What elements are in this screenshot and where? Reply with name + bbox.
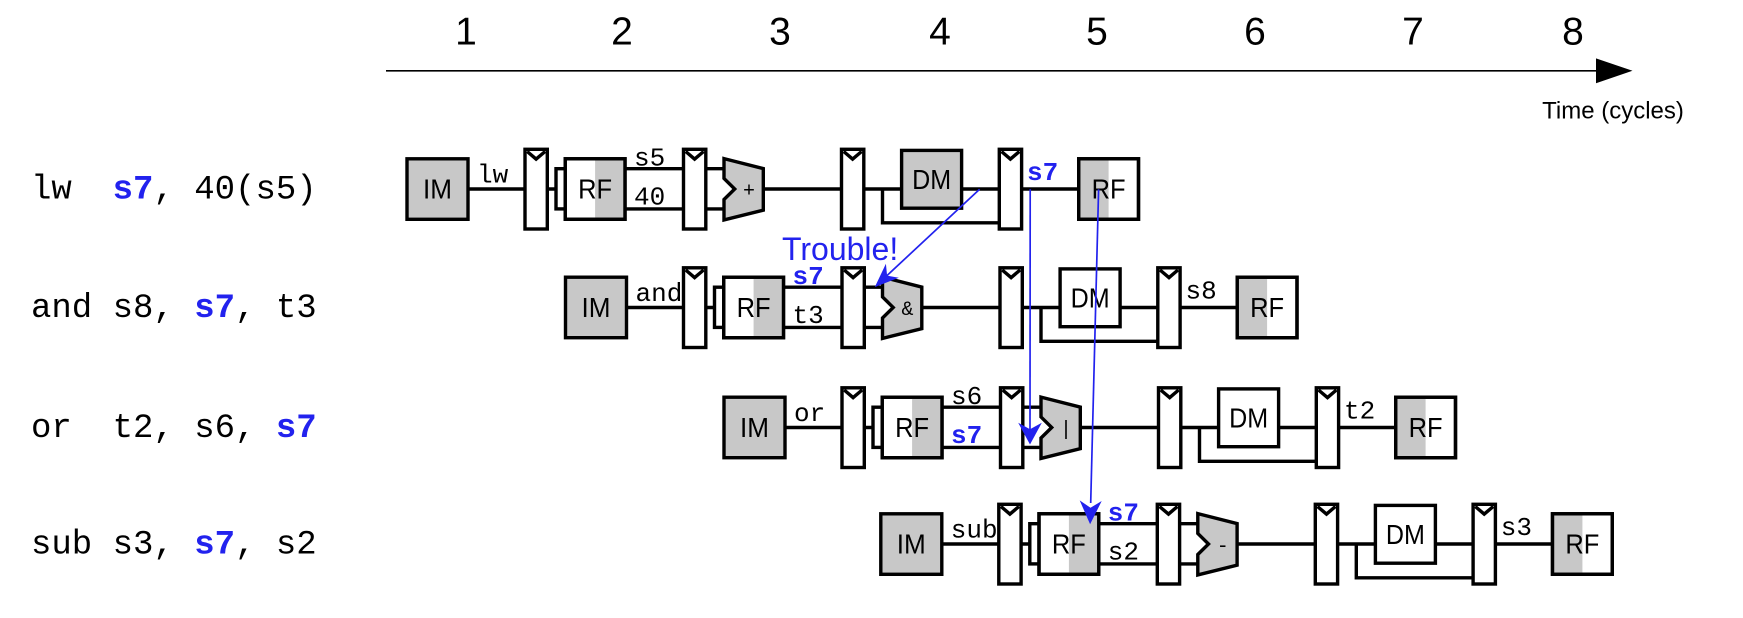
svg-text:RF: RF bbox=[578, 174, 612, 205]
hazard arrow 3: lw writeback to sub RF read bbox=[1080, 189, 1102, 524]
wire register to RF writeback row 1 bbox=[1022, 187, 1081, 190]
RF box (register file write) row 3 bbox=[1396, 397, 1456, 458]
wire register to ALU bottom input row 4 bbox=[1180, 562, 1200, 565]
wire RF bottom output row 1 bbox=[625, 207, 686, 210]
svg-text:2: 2 bbox=[611, 11, 633, 54]
svg-text:-: - bbox=[1217, 536, 1229, 559]
pipeline register EX/MEM row 1 bbox=[842, 149, 864, 229]
wire RF top output row 3 bbox=[942, 406, 1003, 409]
svg-text:sub s3, s7, s2: sub s3, s7, s2 bbox=[31, 527, 317, 565]
RF left port bracket row 1 bbox=[556, 169, 586, 209]
svg-text:DM: DM bbox=[1229, 402, 1268, 433]
ALU (-) row 4 bbox=[1198, 514, 1237, 575]
svg-text:5: 5 bbox=[1086, 11, 1108, 54]
svg-text:RF: RF bbox=[1052, 529, 1086, 560]
wire DM to register row 4 bbox=[1435, 542, 1475, 545]
svg-text:DM: DM bbox=[1386, 519, 1425, 550]
pipeline register MEM/WB row 2 bbox=[1158, 268, 1180, 348]
svg-text:s7: s7 bbox=[1027, 158, 1058, 188]
wire RF top output row 2 bbox=[784, 286, 845, 289]
wire DM to register row 3 bbox=[1279, 426, 1319, 429]
wire ALU output row 1 bbox=[763, 187, 843, 190]
wire register to DM row 4 bbox=[1338, 542, 1378, 545]
pipeline register IF/ID row 3 bbox=[842, 388, 864, 468]
svg-text:IM: IM bbox=[740, 412, 769, 443]
wire register to ALU bottom input row 1 bbox=[706, 207, 726, 210]
wire RF top output row 1 bbox=[625, 167, 686, 170]
svg-text:RF: RF bbox=[1250, 292, 1284, 323]
wire ALU output row 4 bbox=[1237, 542, 1317, 545]
RF left port bracket row 4 bbox=[1030, 524, 1060, 564]
wire register to RF row 4 bbox=[1021, 542, 1040, 545]
timeline axis (time arrow) bbox=[386, 58, 1633, 83]
pipeline register IF/ID row 4 bbox=[999, 504, 1021, 584]
RF box (register file write) row 4 bbox=[1553, 514, 1613, 575]
RF box (register file read) row 2 bbox=[724, 277, 784, 338]
svg-text:t3: t3 bbox=[793, 301, 824, 331]
svg-text:s8: s8 bbox=[1186, 277, 1217, 307]
svg-text:3: 3 bbox=[769, 11, 791, 54]
wire register to RF row 3 bbox=[864, 426, 883, 429]
RF box (register file read) row 4 bbox=[1039, 514, 1099, 575]
IM box (instruction memory) row 3 bbox=[724, 397, 785, 458]
wire register to RF row 1 bbox=[547, 187, 566, 190]
DM box (data memory) row 1 bbox=[902, 150, 962, 208]
wire RF bottom output row 3 bbox=[942, 446, 1003, 449]
wire ALU output row 3 bbox=[1080, 426, 1160, 429]
svg-text:1: 1 bbox=[455, 11, 477, 54]
svg-text:lw s7, 40(s5): lw s7, 40(s5) bbox=[31, 172, 317, 210]
svg-text:s2: s2 bbox=[1108, 537, 1139, 567]
svg-text:Time (cycles): Time (cycles) bbox=[1542, 98, 1684, 125]
DM bypass wire row 3 bbox=[1200, 428, 1319, 462]
DM bypass wire row 2 bbox=[1041, 308, 1160, 342]
wire register to DM row 2 bbox=[1022, 306, 1062, 309]
svg-text:DM: DM bbox=[1071, 282, 1110, 313]
svg-text:RF: RF bbox=[737, 292, 771, 323]
pipeline register EX/MEM row 2 bbox=[1000, 268, 1022, 348]
hazard arrow 1: lw result to and ALU input bbox=[875, 189, 980, 287]
svg-text:s6: s6 bbox=[951, 382, 982, 412]
svg-text:IM: IM bbox=[582, 292, 611, 323]
wire ALU output row 2 bbox=[922, 306, 1002, 309]
DM bypass wire row 4 bbox=[1356, 544, 1475, 578]
pipeline register EX/MEM row 3 bbox=[1159, 388, 1181, 468]
svg-text:s5: s5 bbox=[634, 144, 665, 174]
wire register to ALU bottom input row 2 bbox=[864, 326, 884, 329]
ALU (&) row 2 bbox=[883, 277, 922, 338]
ALU (|) row 3 bbox=[1041, 397, 1080, 458]
svg-text:RF: RF bbox=[1565, 529, 1599, 560]
pipeline register ID/EX row 3 bbox=[1001, 388, 1023, 468]
wire register to ALU top input row 2 bbox=[864, 286, 884, 289]
svg-text:and: and bbox=[636, 279, 683, 309]
svg-text:DM: DM bbox=[912, 164, 951, 195]
svg-text:IM: IM bbox=[423, 174, 452, 205]
pipeline register MEM/WB row 3 bbox=[1316, 388, 1338, 468]
svg-text:or t2, s6, s7: or t2, s6, s7 bbox=[31, 410, 317, 448]
RF left port bracket row 3 bbox=[873, 407, 903, 447]
svg-text:s3: s3 bbox=[1501, 513, 1532, 543]
pipeline register MEM/WB row 1 bbox=[999, 149, 1021, 229]
svg-text:|: | bbox=[1060, 419, 1072, 442]
svg-text:Trouble!: Trouble! bbox=[782, 231, 898, 267]
wire register to ALU bottom input row 3 bbox=[1023, 446, 1043, 449]
svg-text:8: 8 bbox=[1562, 11, 1584, 54]
svg-text:and s8, s7, t3: and s8, s7, t3 bbox=[31, 290, 317, 328]
DM box (data memory) row 2 bbox=[1060, 269, 1120, 327]
svg-text:6: 6 bbox=[1244, 11, 1266, 54]
wire register to RF writeback row 3 bbox=[1339, 426, 1398, 429]
hazard arrow 2: lw result to or ALU input bbox=[1018, 189, 1042, 444]
wire register to ALU top input row 4 bbox=[1180, 522, 1200, 525]
wire IM to IF/ID register row 4 bbox=[942, 542, 1001, 545]
wire DM to register row 1 bbox=[962, 187, 1002, 190]
pipeline register ID/EX row 2 bbox=[842, 268, 864, 348]
svg-text:s7: s7 bbox=[951, 421, 982, 451]
svg-text:or: or bbox=[794, 399, 825, 429]
RF box (register file write) row 2 bbox=[1237, 277, 1297, 338]
RF box (register file write) row 1 bbox=[1079, 159, 1139, 220]
DM bypass wire row 1 bbox=[883, 189, 1002, 223]
pipeline register ID/EX row 1 bbox=[684, 149, 706, 229]
pipeline register EX/MEM row 4 bbox=[1315, 504, 1337, 584]
svg-text:7: 7 bbox=[1402, 11, 1424, 54]
wire register to DM row 3 bbox=[1181, 426, 1221, 429]
svg-text:40: 40 bbox=[634, 182, 665, 212]
wire RF bottom output row 4 bbox=[1099, 562, 1160, 565]
svg-text:t2: t2 bbox=[1344, 397, 1375, 427]
svg-text:s7: s7 bbox=[1108, 499, 1139, 529]
wire RF top output row 4 bbox=[1099, 522, 1160, 525]
wire register to RF writeback row 2 bbox=[1180, 306, 1239, 309]
svg-text:&: & bbox=[901, 299, 913, 322]
pipeline register IF/ID row 2 bbox=[684, 268, 706, 348]
DM box (data memory) row 3 bbox=[1219, 389, 1279, 447]
wire register to RF row 2 bbox=[706, 306, 725, 309]
svg-text:RF: RF bbox=[1409, 412, 1443, 443]
svg-text:sub: sub bbox=[951, 516, 998, 546]
pipeline register MEM/WB row 4 bbox=[1473, 504, 1495, 584]
svg-text:IM: IM bbox=[897, 529, 926, 560]
DM box (data memory) row 4 bbox=[1375, 505, 1435, 563]
ALU (+) row 1 bbox=[724, 159, 763, 220]
svg-text:RF: RF bbox=[1092, 174, 1126, 205]
wire IM to IF/ID register row 2 bbox=[627, 306, 686, 309]
pipeline register ID/EX row 4 bbox=[1157, 504, 1179, 584]
RF box (register file read) row 3 bbox=[882, 397, 942, 458]
IM box (instruction memory) row 2 bbox=[566, 277, 627, 338]
wire register to ALU top input row 3 bbox=[1023, 406, 1043, 409]
wire register to ALU top input row 1 bbox=[706, 167, 726, 170]
RF left port bracket row 2 bbox=[715, 287, 745, 327]
wire register to DM row 1 bbox=[864, 187, 904, 190]
wire RF bottom output row 2 bbox=[784, 326, 845, 329]
IM box (instruction memory) row 1 bbox=[407, 159, 468, 220]
pipeline register IF/ID row 1 bbox=[525, 149, 547, 229]
svg-text:+: + bbox=[743, 181, 755, 204]
wire DM to register row 2 bbox=[1120, 306, 1160, 309]
wire IM to IF/ID register row 1 bbox=[468, 187, 527, 190]
IM box (instruction memory) row 4 bbox=[881, 514, 942, 575]
wire IM to IF/ID register row 3 bbox=[785, 426, 844, 429]
svg-text:4: 4 bbox=[929, 11, 951, 54]
svg-text:lw: lw bbox=[477, 161, 509, 191]
wire register to RF writeback row 4 bbox=[1495, 542, 1554, 545]
svg-text:RF: RF bbox=[895, 412, 929, 443]
RF box (register file read) row 1 bbox=[565, 159, 625, 220]
